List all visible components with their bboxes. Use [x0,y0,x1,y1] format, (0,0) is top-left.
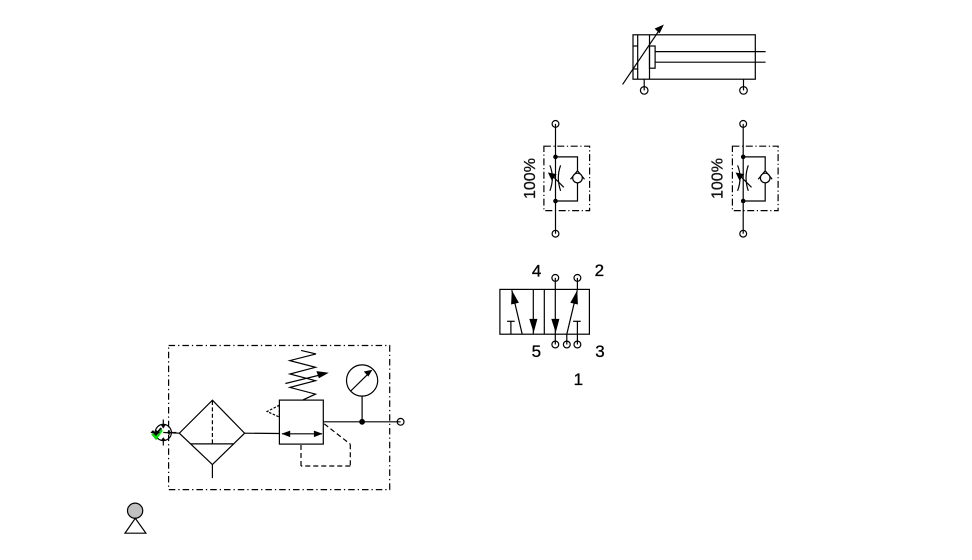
svg-text:100%: 100% [522,158,539,199]
svg-text:3: 3 [595,342,604,361]
svg-text:100%: 100% [710,158,727,199]
svg-text:5: 5 [532,342,541,361]
svg-text:2: 2 [595,261,604,280]
svg-text:4: 4 [532,261,541,280]
svg-text:1: 1 [574,370,583,389]
